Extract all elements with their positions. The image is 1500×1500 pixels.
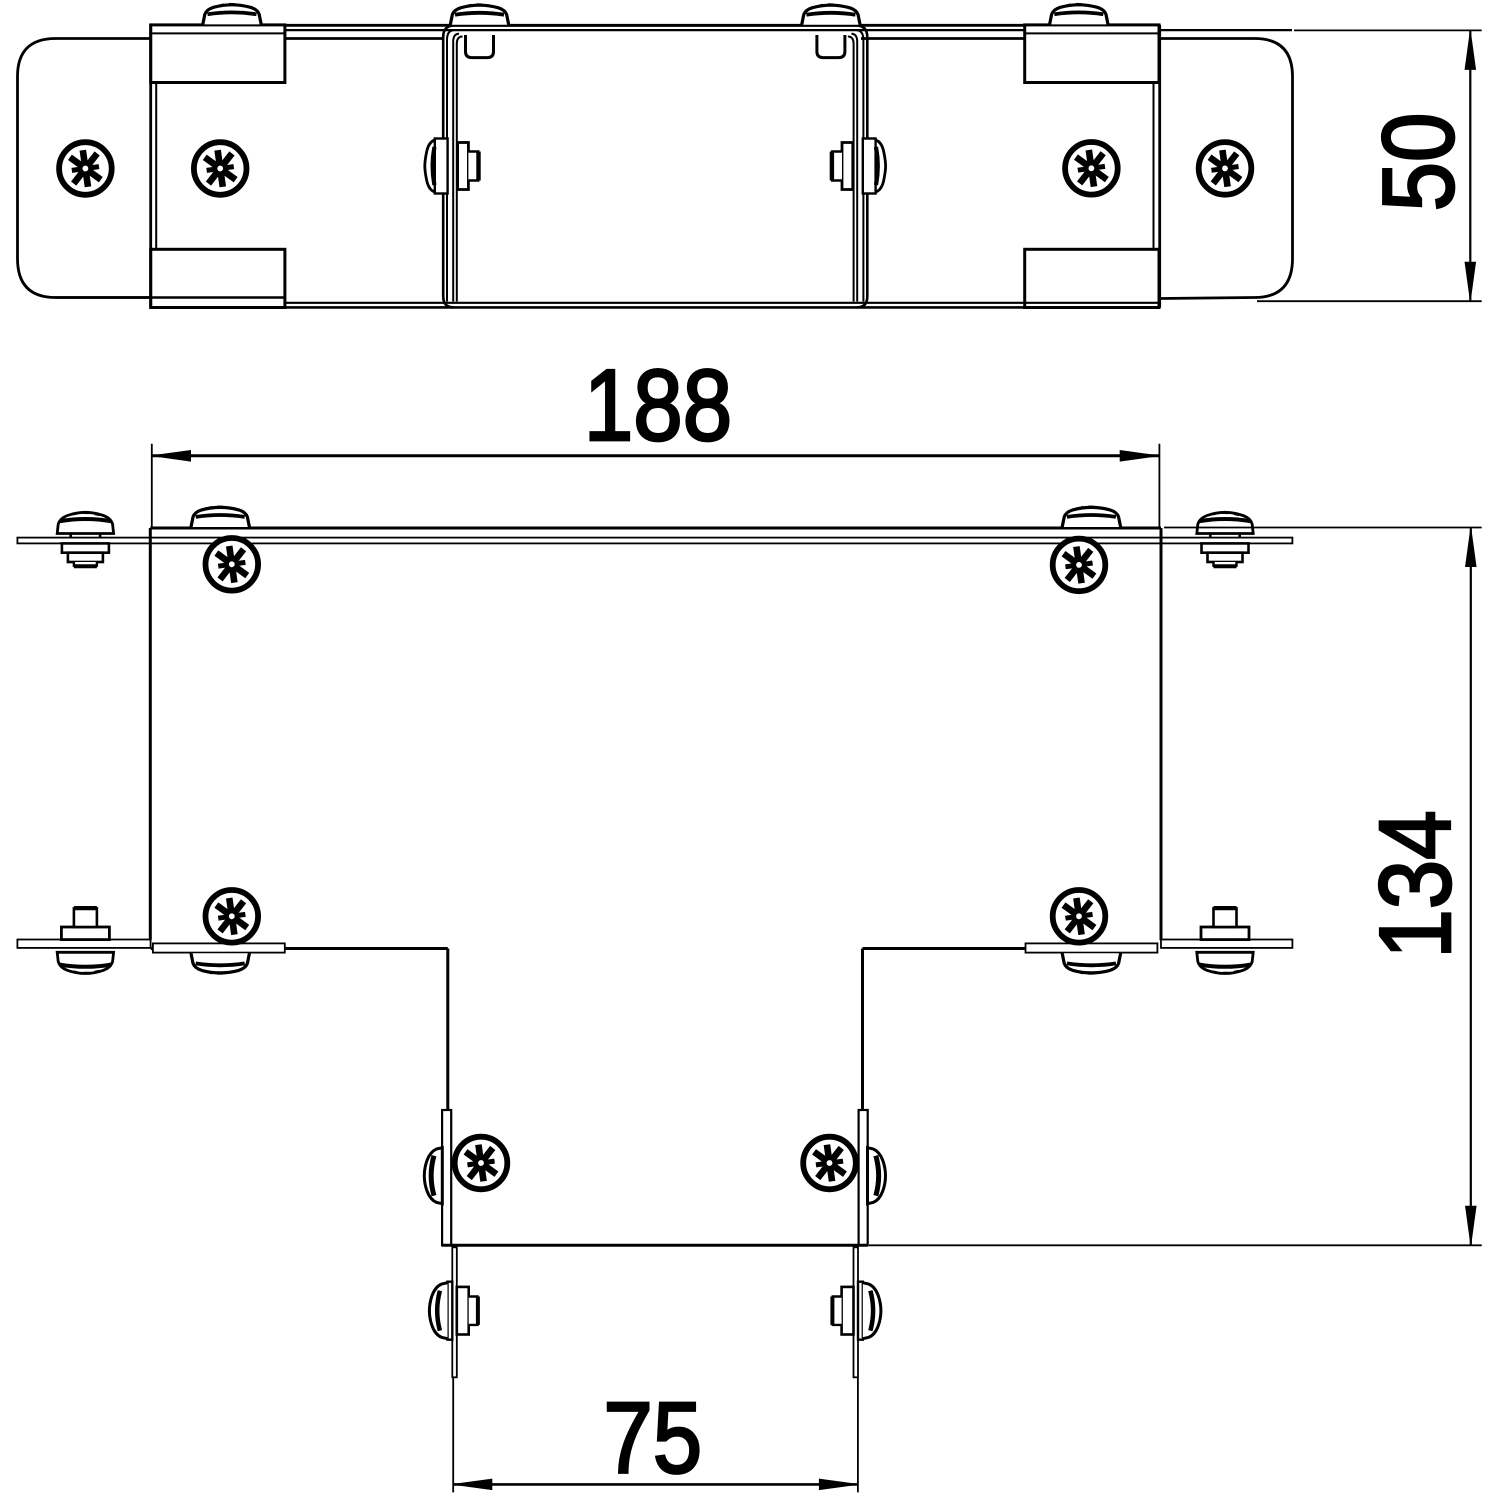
pozidriv screw, right end cap <box>1199 142 1252 195</box>
arrowhead 134 top <box>1466 529 1476 567</box>
leg connector strip lower right <box>854 1247 859 1377</box>
outer screw mid right (mirrored) <box>1197 908 1253 973</box>
top cover strip upper edge (edge-on) <box>151 24 1160 27</box>
extension lines for 50 <box>1257 30 1482 301</box>
T-piece bottom edge right segment <box>863 947 1026 950</box>
pozidriv screw, left end cap <box>59 142 112 195</box>
dimension line 188 <box>152 454 1159 457</box>
clip nut below strip, left corner of sleeve <box>466 35 494 58</box>
dome screw head on sleeve left corner <box>450 4 508 24</box>
svg-text:188: 188 <box>584 350 732 463</box>
side screw through sleeve right wall <box>832 139 886 194</box>
mid connector strip inner left <box>153 943 285 952</box>
bottom cover strip upper edge <box>286 302 1160 304</box>
dome screw head on sleeve right corner <box>802 4 860 24</box>
body top edge segments <box>286 37 1025 40</box>
dome screw head on leg left edge <box>424 1148 442 1204</box>
pozidriv screw, right clamp <box>1065 142 1118 195</box>
arrowhead 75 left <box>454 1479 492 1489</box>
right clamp lower tab <box>1025 249 1159 307</box>
dimension line 134 <box>1470 528 1472 1246</box>
T-piece bottom edge left segment <box>151 947 448 950</box>
dome screw head on leg right edge <box>868 1148 886 1204</box>
centre branch sleeve outer wall bottom folds <box>443 296 867 307</box>
top connector strip (plan view) <box>17 538 1292 544</box>
leg connector strip upper left <box>442 1110 451 1245</box>
arrowhead 50 top <box>1465 31 1475 69</box>
arrowhead 75 right <box>819 1479 857 1489</box>
leg connector strip upper right <box>859 1110 868 1245</box>
dome screw head on top edge right <box>1062 507 1120 527</box>
arrowhead 50 bottom <box>1465 262 1475 300</box>
left clamp upper tab <box>151 25 285 83</box>
leg connector strip lower left <box>452 1247 457 1377</box>
pozidriv screw plan top-right <box>1053 539 1106 592</box>
side screw through leg strip right <box>832 1282 882 1340</box>
svg-text:134: 134 <box>1360 810 1473 958</box>
centre branch sleeve outer sheet inner lines <box>447 30 863 301</box>
T-piece top edge <box>150 527 1161 530</box>
arrowhead 134 bottom <box>1466 1206 1476 1244</box>
mid connector strip outer right <box>1161 940 1292 948</box>
centre branch sleeve outer wall (side view) <box>443 25 867 296</box>
dimension line 75 <box>453 1483 858 1486</box>
extension lines for 188 <box>152 444 1160 527</box>
mid connector strip inner right <box>1026 943 1158 952</box>
dome screw head on left clamp <box>203 4 261 24</box>
mid connector strip outer left <box>17 940 150 948</box>
top cover strip lower edge segment B <box>1160 29 1292 31</box>
outer screw mid left (mirrored) <box>57 908 113 973</box>
strip lines crossing right lower tab <box>1025 302 1160 304</box>
T-piece right edge <box>1160 528 1163 940</box>
side screw through leg strip left <box>428 1282 478 1340</box>
svg-text:75: 75 <box>603 1382 702 1495</box>
dome screw head mid left (down) <box>191 953 249 973</box>
branch leg end edge <box>442 1244 868 1247</box>
pozidriv screw leg right <box>803 1137 856 1190</box>
pozidriv screw plan mid-left <box>206 890 259 943</box>
svg-text:50: 50 <box>1363 113 1476 212</box>
outer screw top right <box>1197 512 1253 566</box>
right clamp web edges <box>1158 25 1161 308</box>
top cover strip lower edge segment A <box>286 29 1025 31</box>
pozidriv screw plan mid-right <box>1053 890 1106 943</box>
centre branch sleeve inner sheet lines right <box>848 34 857 302</box>
extension lines for 134 <box>869 528 1482 1246</box>
T-piece left edge <box>149 528 152 940</box>
extension lines for 75 <box>453 1378 858 1492</box>
clip nut below strip, right corner of sleeve <box>817 35 845 58</box>
left clamp upper tab fold line <box>151 32 285 34</box>
trunking body right end cap (side view) <box>1160 39 1293 299</box>
branch leg left edge <box>446 949 449 1246</box>
pozidriv screw plan top-left <box>206 538 259 591</box>
left clamp lower tab <box>151 249 285 307</box>
left end cap bottom edge crossing tab <box>55 296 285 299</box>
pozidriv screw, left clamp <box>194 142 247 195</box>
outer screw top left <box>57 512 113 566</box>
dome screw head mid right (down) <box>1062 953 1120 973</box>
trunking body left end cap (side view) <box>18 39 152 298</box>
centre branch sleeve inner sheet lines left <box>453 34 462 302</box>
right clamp upper tab fold line <box>1025 32 1159 34</box>
dome screw head on right clamp <box>1050 4 1108 24</box>
dimension line 50 <box>1469 30 1471 301</box>
arrowhead 188 left <box>153 451 191 461</box>
dome screw head on top edge left <box>191 507 249 527</box>
pozidriv screw leg left <box>455 1137 508 1190</box>
side screw through sleeve left wall <box>425 139 479 194</box>
left clamp web edges <box>149 25 152 308</box>
arrowhead 188 right <box>1120 451 1158 461</box>
branch leg right edge <box>861 949 864 1246</box>
bottom cover strip lower edge <box>286 306 1160 309</box>
right clamp upper tab <box>1025 25 1159 83</box>
